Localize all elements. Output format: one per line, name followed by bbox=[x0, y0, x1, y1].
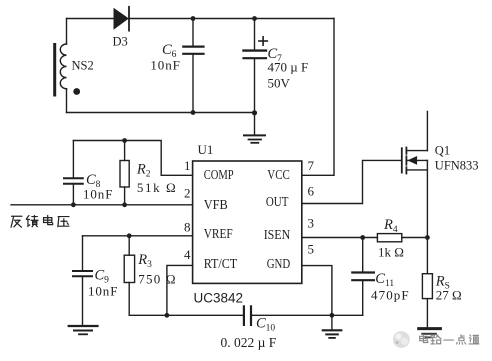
svg-text:1k Ω: 1k Ω bbox=[378, 245, 404, 260]
wire R4 to source junction bbox=[402, 237, 428, 239]
wire NS2 vertical bottom bbox=[66, 89, 68, 113]
svg-text:27 Ω: 27 Ω bbox=[436, 288, 462, 303]
wire pin 6 OUT to gate bbox=[302, 160, 402, 203]
wire pin 4 RT/CT bbox=[167, 265, 193, 315]
char 压 bbox=[58, 217, 69, 227]
ground below C7 bbox=[244, 113, 265, 143]
svg-text:750 Ω: 750 Ω bbox=[138, 272, 176, 287]
svg-text:U1: U1 bbox=[198, 142, 214, 157]
svg-text:4: 4 bbox=[184, 247, 191, 262]
svg-text:GND: GND bbox=[267, 256, 291, 271]
char 路 bbox=[431, 335, 441, 344]
svg-text:6: 6 bbox=[308, 184, 315, 199]
wire pin 8 VREF bbox=[83, 235, 193, 237]
wire top rail left of diode bbox=[67, 18, 115, 20]
resistor R4 symbol bbox=[377, 234, 401, 242]
capacitor C9 symbol bbox=[73, 236, 92, 326]
transformer core bar bbox=[53, 45, 56, 96]
char 电 bbox=[44, 216, 53, 225]
char 一 bbox=[444, 335, 454, 345]
ground below pin5 junction bbox=[323, 315, 342, 338]
svg-text:RT/CT: RT/CT bbox=[204, 256, 238, 271]
svg-text:OUT: OUT bbox=[266, 194, 289, 209]
svg-text:10nF: 10nF bbox=[83, 187, 113, 202]
svg-text:7: 7 bbox=[308, 158, 315, 173]
wire pin1 COMP bbox=[73, 141, 192, 176]
ground below R5 bbox=[419, 329, 441, 338]
svg-text:VREF: VREF bbox=[204, 226, 233, 241]
svg-text:Q1: Q1 bbox=[435, 144, 450, 158]
svg-text:470 µ F: 470 µ F bbox=[268, 60, 309, 75]
capacitor C10 symbol bbox=[244, 306, 251, 325]
label 反馈电压 (feedback voltage) hand-drawn hanzi bbox=[11, 216, 69, 228]
char 馈 bbox=[26, 216, 38, 227]
watermark logo circle bbox=[393, 331, 410, 348]
capacitor C8 symbol bbox=[64, 141, 83, 205]
svg-text:ISEN: ISEN bbox=[264, 227, 291, 242]
winding NS2 arcs bbox=[60, 44, 66, 89]
svg-text:10nF: 10nF bbox=[150, 58, 180, 73]
svg-text:51k Ω: 51k Ω bbox=[137, 180, 177, 195]
char 电 bbox=[420, 334, 428, 342]
resistor R3 symbol bbox=[124, 236, 134, 315]
svg-text:2: 2 bbox=[184, 186, 191, 201]
watermark text 电路一点通 hand-drawn hanzi bbox=[420, 334, 479, 344]
svg-text:NS2: NS2 bbox=[72, 59, 94, 73]
svg-text:1: 1 bbox=[184, 158, 191, 173]
resistor R2 symbol bbox=[120, 141, 129, 205]
wire bottom rail R3 to C10 bbox=[129, 314, 243, 316]
wire feedback line to pin 2 bbox=[11, 204, 193, 206]
svg-text:D3: D3 bbox=[113, 35, 128, 49]
svg-text:UC3842: UC3842 bbox=[194, 291, 244, 306]
svg-text:VCC: VCC bbox=[267, 167, 290, 182]
capacitor C7 symbol bbox=[244, 19, 268, 114]
svg-text:3: 3 bbox=[308, 216, 315, 231]
wire pin 3 ISEN to R4 bbox=[302, 237, 378, 239]
resistor R5 symbol bbox=[422, 238, 432, 328]
diode D3 symbol bbox=[114, 7, 129, 31]
capacitor C11 symbol bbox=[352, 238, 374, 316]
wire NS2 vertical top bbox=[66, 19, 68, 45]
svg-text:COMP: COMP bbox=[204, 167, 234, 182]
IC U1 box bbox=[193, 161, 302, 283]
wire bottom rail of top loop bbox=[67, 112, 255, 114]
capacitor C6 symbol bbox=[183, 19, 203, 113]
svg-text:10nF: 10nF bbox=[88, 284, 118, 299]
svg-text:0. 022 µ F: 0. 022 µ F bbox=[221, 335, 277, 350]
svg-text:8: 8 bbox=[184, 220, 191, 235]
wire C10 to ground junction bbox=[252, 314, 363, 316]
transistor Q1 MOSFET symbol bbox=[402, 111, 428, 237]
ground below C9 bbox=[69, 326, 98, 334]
svg-text:470pF: 470pF bbox=[371, 288, 410, 303]
svg-text:UFN833: UFN833 bbox=[435, 159, 479, 173]
wire top rail right of diode bbox=[129, 18, 334, 20]
svg-text:50V: 50V bbox=[268, 76, 291, 91]
char 反 bbox=[11, 216, 22, 227]
svg-text:VFB: VFB bbox=[204, 197, 228, 212]
char 通 bbox=[469, 335, 479, 344]
wire VCC from top rail to pin 7 bbox=[302, 19, 334, 176]
svg-text:5: 5 bbox=[308, 242, 315, 257]
wire pin 5 GND bbox=[302, 266, 332, 316]
char 点 bbox=[457, 335, 466, 345]
